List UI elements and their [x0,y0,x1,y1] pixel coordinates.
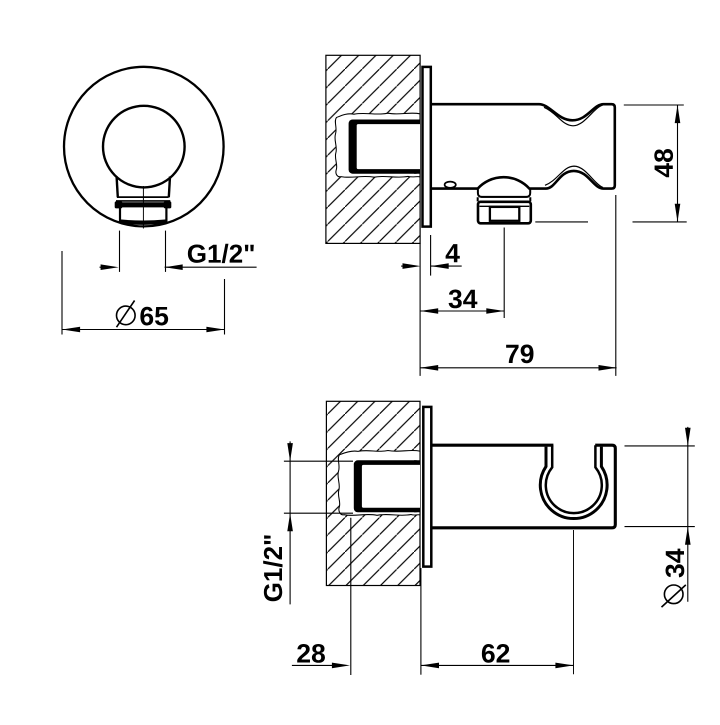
flange right nub [164,201,172,208]
wall section (hatched) [326,55,420,243]
dia65 extension line left [61,251,63,335]
outlet collar under dome [478,190,530,197]
label G1/2" [188,244,254,263]
G1/2 extension line left [119,231,121,272]
wall supply pipe (section) [349,120,420,174]
dim 79 line [420,365,616,371]
ring line [116,200,170,202]
hose nut inner facet [490,207,519,221]
centerline [142,186,144,229]
groove echo line bottom [545,166,603,187]
wall cutout (wavy break around pipe) [335,113,420,177]
centerline below cradle [573,530,575,674]
dim 62 line [421,663,574,669]
dia34 diameter symbol [662,585,686,607]
thread flange band [116,202,171,207]
label G1/2" (rotated) [263,535,282,601]
ext line from wall face down [419,243,421,376]
connector collar left line [117,177,118,198]
label 48 (rotated) [654,149,673,177]
dia65 dimension line [62,327,225,333]
nut bottom thick bar [121,222,165,223]
G1/2 ext lines [284,461,353,513]
G1/2 extension line right [165,231,167,272]
dim 28 arrow [292,663,350,669]
label 28 [297,644,325,663]
nut left side [119,207,121,221]
ext line pipe rear [350,518,352,675]
wall flange plate [423,407,431,567]
label 34 (rotated) [666,549,685,578]
flange left nub [115,201,123,208]
cradle inner wall [546,445,602,513]
label 79 [506,345,533,364]
holder body right part [431,445,615,528]
label 62 [482,644,509,663]
dim 48 line [675,105,681,222]
G1/2 dim arrow left [100,264,119,270]
dia34 ext lines [625,446,695,527]
dim 4 arrows [401,263,462,269]
dim 48 ext top [624,104,684,106]
ext line from outlet center [503,228,505,319]
label 65 [140,307,168,326]
outlet collar bottom line [481,196,528,198]
dia65 extension line right [224,279,226,335]
ext line from body end [615,195,617,376]
connector collar right line [169,177,170,198]
groove echo line top [544,105,603,126]
G1/2 dim line with outside arrows [287,441,293,604]
escutcheon outer circle [64,67,224,227]
ext line wall face [420,568,422,675]
holder body outline [431,104,615,188]
wall cutout (wavy break around pipe) [338,450,420,515]
cradle outer wall [540,447,607,519]
G1/2 dim arrow right + leader [165,264,257,270]
set screw ellipse [445,182,456,188]
outlet ring band [478,197,531,201]
holder body top edge left [431,444,553,447]
nut right side [165,207,167,221]
hose nut outer [478,202,531,224]
collar bottom line [117,196,169,198]
diameter symbol [117,301,136,328]
label 34 [449,290,478,309]
dim 34 line [420,308,504,314]
dim 48 ext bottom [535,221,686,223]
wall section (hatched) [326,401,420,585]
ball joint inner circle [103,106,185,188]
supply pipe (section) [354,460,420,512]
ext line from plate face [430,235,432,276]
wall flange plate [423,67,431,227]
hose nut inner top line [480,205,530,207]
label 4 [446,244,460,262]
dia34 dim line with outside arrows [685,427,691,602]
